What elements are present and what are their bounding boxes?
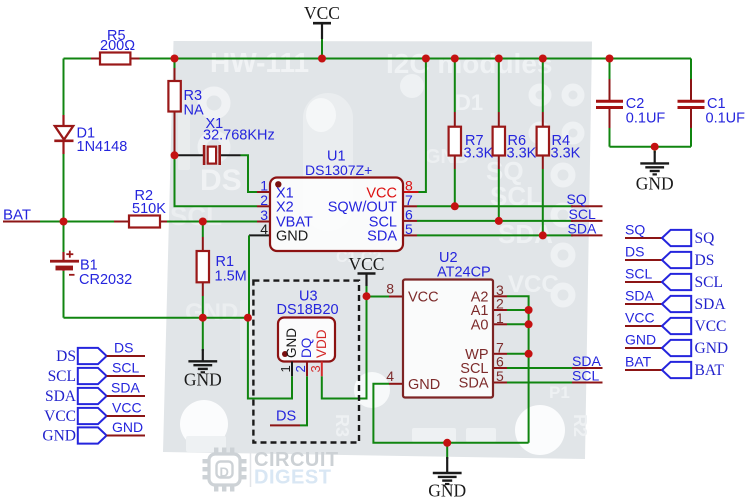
node BAT D1 column [60, 218, 68, 226]
wire crystal node to X2 pin [175, 155, 258, 206]
connector port DS left [56, 340, 145, 365]
wire U2 pin4 stub [389, 383, 403, 385]
node R6 SCL line [495, 217, 503, 225]
node pin8 riser rail [422, 55, 430, 63]
wire U2 A1 stub [493, 309, 507, 311]
svg-text:BAT: BAT [625, 354, 652, 370]
svg-text:VCC: VCC [625, 310, 655, 326]
svg-text:R2: R2 [570, 414, 590, 437]
svg-text:2: 2 [293, 365, 308, 372]
node bottom rail gnd [199, 314, 207, 322]
svg-text:VCC: VCC [44, 408, 76, 425]
wire U2 A0 stub [493, 323, 507, 325]
svg-text:VCC: VCC [349, 254, 385, 274]
wire R4 leads [542, 59, 544, 113]
svg-text:DQ: DQ [299, 338, 314, 358]
wire U1 pin3 stub [257, 221, 270, 223]
op-amp U1 DS1307Z+ body [270, 149, 403, 252]
wire U1 pin1 stub [257, 191, 270, 193]
wire U1 pin2 stub [257, 205, 270, 207]
svg-text:DS: DS [625, 244, 644, 260]
svg-text:2: 2 [260, 192, 268, 208]
svg-text:8: 8 [386, 281, 394, 297]
svg-text:VDD: VDD [314, 329, 329, 358]
node R4 SDA line [539, 231, 547, 239]
svg-text:5: 5 [405, 221, 413, 237]
connector port BAT right [625, 354, 724, 379]
wire C2 leads [609, 59, 611, 80]
svg-text:X2: X2 [276, 200, 294, 216]
resistor R1 [197, 251, 247, 285]
svg-text:1N4148: 1N4148 [77, 139, 128, 155]
wire SCL line [417, 220, 573, 222]
svg-text:4: 4 [386, 368, 394, 384]
svg-text:3.3K: 3.3K [551, 146, 581, 162]
node A0 riser [525, 320, 533, 328]
U3 DS18B20 dashed enclosure [253, 281, 359, 443]
svg-text:VCC: VCC [304, 3, 340, 23]
node VCC mid [363, 292, 371, 300]
wire cap GND stem [654, 147, 656, 153]
wire pin8 riser to rail [419, 59, 426, 193]
U3 pin2 stub [306, 362, 308, 377]
svg-text:510K: 510K [132, 201, 166, 217]
wire crystal to X1 pin [241, 155, 258, 192]
wire U2 pin5 stub [493, 382, 507, 384]
svg-text:SDA: SDA [695, 296, 727, 313]
node C2 rail [606, 55, 614, 63]
svg-text:200Ω: 200Ω [100, 38, 135, 54]
battery B1 [50, 251, 132, 288]
node VCC top rail [318, 55, 326, 63]
svg-text:DS: DS [695, 252, 715, 269]
svg-text:GND: GND [428, 481, 466, 500]
svg-text:AT24CP: AT24CP [437, 265, 491, 281]
node U2 ground rail [443, 439, 451, 447]
svg-text:SCL: SCL [625, 266, 652, 282]
wire C1 leads [690, 59, 692, 80]
wire BAT label stub [3, 221, 40, 223]
connector port GND left [42, 419, 145, 444]
wire VCC mid symbol stem [366, 285, 368, 296]
svg-text:1: 1 [496, 310, 504, 326]
node R6 rail [495, 55, 503, 63]
wire bottom rail [64, 317, 248, 319]
svg-text:1.5M: 1.5M [215, 269, 247, 285]
resistor R5 [100, 28, 135, 65]
svg-text:GND: GND [695, 340, 729, 357]
U3 pin1 stub [291, 362, 293, 377]
power symbol VCC top [304, 3, 340, 59]
wire U3 pin1 GND net [248, 318, 292, 399]
svg-text:VCC: VCC [695, 318, 727, 335]
resistor R7 [449, 127, 494, 162]
svg-text:3.3K: 3.3K [507, 146, 537, 162]
wire U1 pin8 stub [403, 191, 419, 193]
svg-text:GND: GND [284, 328, 299, 358]
ground symbol capacitors [636, 151, 674, 194]
svg-text:SDA: SDA [459, 376, 489, 392]
svg-text:0.1UF: 0.1UF [706, 111, 746, 127]
wire R3 top lead [174, 59, 176, 69]
wire R1 bottom lead [202, 282, 204, 296]
wire U2 pin4 to ground rail [373, 384, 528, 443]
svg-text:SQ: SQ [695, 230, 715, 247]
capacitor C2 [596, 96, 665, 127]
wire U3 pin3 VDD net [322, 296, 367, 398]
svg-text:GND: GND [276, 229, 308, 245]
wire top rail VCC [64, 58, 692, 60]
wire R6 leads [498, 59, 500, 113]
wire bottom GND stem [446, 443, 448, 459]
node A1 riser [525, 306, 533, 314]
wire U1 pin6 stub [403, 220, 417, 222]
svg-text:3: 3 [308, 365, 323, 372]
resistor R6 [493, 127, 537, 162]
svg-text:DS18B20: DS18B20 [277, 302, 339, 318]
node crystal R3 [171, 151, 179, 159]
svg-text:DIGEST: DIGEST [254, 467, 331, 489]
wire SDA line [417, 234, 573, 236]
svg-text:DS: DS [200, 164, 242, 197]
wire U1 pin4 stub and GND run [249, 234, 270, 236]
svg-text:7: 7 [405, 192, 413, 208]
svg-text:VCC: VCC [112, 400, 142, 416]
PCB module photo background [163, 41, 592, 459]
resistor R4 [537, 127, 581, 162]
svg-text:VCC: VCC [408, 290, 439, 306]
connector port VCC left [44, 400, 145, 425]
ground symbol bottom [428, 457, 466, 500]
svg-text:GND: GND [185, 299, 238, 326]
svg-text:D: D [220, 465, 229, 480]
svg-text:DS1307Z+: DS1307Z+ [305, 162, 372, 178]
wire SQ line [417, 205, 573, 207]
node R7 SQ line [451, 202, 459, 210]
wire U2 A2 stub [493, 295, 507, 297]
svg-text:CR2032: CR2032 [79, 272, 132, 288]
svg-text:BAT: BAT [3, 207, 31, 224]
svg-text:SDA: SDA [367, 229, 397, 245]
svg-text:5: 5 [496, 368, 504, 384]
wire U2 WP stub [493, 353, 507, 355]
node R2 R1 [199, 218, 207, 226]
connector port SCL left [48, 360, 145, 385]
connector port SDA right [625, 288, 726, 313]
svg-text:GND: GND [112, 419, 143, 435]
svg-text:DS: DS [56, 348, 76, 365]
connector port SCL right [625, 266, 723, 291]
wire left column D1 branch [63, 59, 65, 116]
node R3 top rail [171, 55, 179, 63]
wire R7 leads [454, 59, 456, 113]
svg-text:SCL: SCL [48, 368, 76, 385]
svg-text:P1: P1 [549, 383, 570, 402]
svg-text:SQ: SQ [567, 191, 587, 207]
wire R3 bottom lead to crystal node [174, 112, 176, 156]
connector port VCC right [625, 310, 726, 335]
node R7 rail [451, 55, 459, 63]
U3 pin3 stub [321, 362, 323, 377]
svg-text:HW-111: HW-111 [210, 47, 309, 78]
diode D1 [54, 115, 127, 155]
IC U2 AT24CP body [403, 250, 493, 398]
wire BAT line to R2 [40, 221, 129, 223]
svg-text:1: 1 [278, 365, 293, 372]
wire left GND stem [202, 318, 204, 351]
crystal X1 [203, 116, 275, 165]
wire R2 to VBAT pin [160, 221, 257, 223]
wire R1 top lead [202, 222, 204, 238]
wire VCC node to U2 pin8 [367, 296, 390, 298]
resistor R2 [129, 188, 166, 228]
svg-text:BAT: BAT [695, 362, 725, 379]
wire U2 pin5 SCL line [507, 382, 572, 384]
svg-text:DS: DS [276, 409, 296, 425]
svg-text:DS: DS [114, 340, 133, 356]
svg-text:SQW/OUT: SQW/OUT [328, 200, 397, 216]
ground symbol left [184, 349, 222, 390]
svg-text:3.3K: 3.3K [464, 146, 494, 162]
svg-text:SDA: SDA [45, 388, 77, 405]
sensor U3 DS18B20 body [277, 289, 339, 362]
wire D1 to BAT node [63, 154, 65, 252]
wire U1 pin5 stub [403, 234, 417, 236]
watermark CIRCUIT DIGEST logo [203, 448, 339, 492]
svg-text:SCL: SCL [572, 367, 599, 383]
connector port GND right [625, 332, 728, 357]
svg-text:SDA: SDA [568, 220, 597, 236]
junction node dots [60, 55, 659, 447]
resistor R3 [168, 81, 204, 119]
svg-text:SDA: SDA [625, 288, 654, 304]
node cap gnd [651, 143, 659, 151]
node WP riser [525, 350, 533, 358]
wire crystal right lead [220, 154, 241, 156]
connector port DS right [625, 244, 714, 269]
wire crystal left lead [176, 154, 204, 156]
svg-text:32.768KHz: 32.768KHz [203, 128, 275, 144]
svg-text:0.1UF: 0.1UF [626, 111, 666, 127]
node R4 rail [539, 55, 547, 63]
svg-text:GND: GND [408, 377, 440, 393]
svg-text:4: 4 [260, 221, 268, 237]
svg-text:A0: A0 [471, 317, 489, 333]
connector port SQ right [625, 222, 714, 247]
svg-text:GND: GND [625, 332, 656, 348]
svg-text:GND: GND [42, 428, 76, 445]
wire capacitor ground bus [610, 146, 692, 148]
svg-text:SCL: SCL [112, 360, 139, 376]
power symbol VCC mid [349, 254, 385, 286]
svg-text:SCL: SCL [695, 274, 723, 291]
wire DS label stub [270, 424, 300, 426]
wire U1 pin7 stub [403, 205, 417, 207]
svg-text:VCC: VCC [508, 271, 559, 298]
svg-text:R3: R3 [332, 414, 352, 437]
svg-text:GND: GND [184, 370, 222, 390]
wire battery to bottom rail [63, 271, 65, 318]
connector port SDA left [45, 380, 145, 405]
svg-text:SQ: SQ [625, 222, 645, 238]
wire U3 pin2 DS net [300, 376, 307, 425]
svg-text:SDA: SDA [111, 380, 140, 396]
node bottom rail pin4 [244, 314, 252, 322]
capacitor C1 [678, 96, 746, 127]
svg-text:D1: D1 [455, 90, 483, 115]
wire U2 pin6 stub [493, 367, 507, 369]
wire A2 to riser [507, 296, 529, 443]
svg-text:NA: NA [184, 103, 204, 119]
wire U2 pin6 SDA line [507, 367, 601, 369]
svg-text:GND: GND [636, 174, 674, 194]
